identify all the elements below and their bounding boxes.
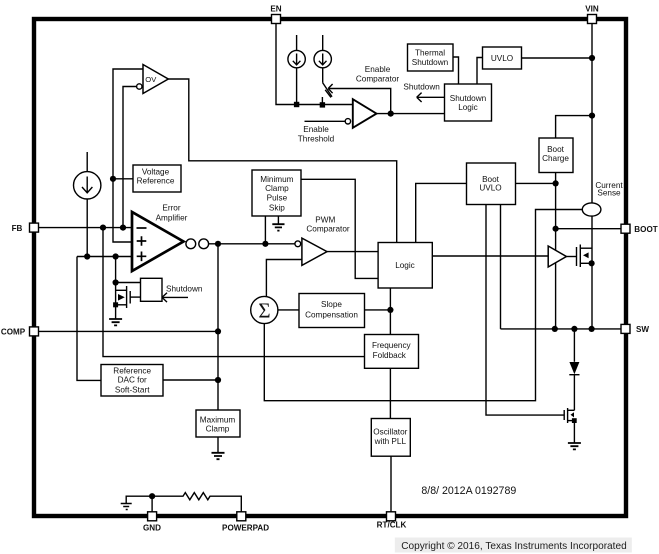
ground low side FET — [568, 443, 581, 449]
wire voltage reference left — [113, 178, 133, 180]
current source I2 (hysteresis) — [322, 35, 324, 50]
block Reference DAC for Soft-Start — [101, 365, 163, 397]
node HS source junction — [589, 260, 595, 266]
svg-text:Shutdown: Shutdown — [166, 284, 203, 293]
wire boot uvlo right — [516, 182, 556, 184]
pin BOOT — [621, 224, 630, 233]
wire FB to frequency foldback — [103, 228, 365, 357]
svg-text:Reference: Reference — [113, 367, 151, 376]
wire logic bottom rail — [389, 288, 391, 419]
wire EA noninverting input 2 — [77, 256, 132, 258]
wire boot charge top to VIN — [556, 116, 592, 138]
svg-text:Comparator: Comparator — [306, 225, 350, 234]
node slope comp / logic — [387, 307, 393, 313]
node GND net — [149, 493, 155, 499]
pin COMP — [30, 327, 39, 336]
svg-text:UVLO: UVLO — [491, 54, 513, 63]
wire summer to slope comp — [278, 309, 299, 311]
svg-text:BOOT: BOOT — [634, 225, 657, 234]
svg-text:Voltage: Voltage — [142, 168, 170, 177]
node voltage reference tap — [110, 176, 116, 182]
node diode tap — [571, 326, 577, 332]
pin FB — [30, 223, 39, 232]
op-amp U1 enable comparator — [353, 99, 377, 128]
node COMP junction — [215, 328, 221, 334]
wire thermal shutdown to shutdown logic — [453, 57, 459, 84]
svg-text:Copyright © 2016, Texas Instru: Copyright © 2016, Texas Instruments Inco… — [401, 541, 627, 552]
svg-text:Compensation: Compensation — [305, 310, 358, 319]
wire logic to gate driver — [432, 255, 548, 257]
svg-text:POWERPAD: POWERPAD — [222, 524, 269, 533]
wire boot uvlo left to logic — [416, 183, 467, 242]
wire current sense to summer — [264, 210, 582, 401]
wire UVLO to VIN rail — [522, 57, 593, 59]
wire comparator output feedback to switch with arrow — [329, 89, 391, 114]
svg-text:Thermal: Thermal — [415, 49, 445, 58]
pin VIN — [588, 15, 597, 24]
svg-text:Sense: Sense — [597, 189, 621, 198]
diode D1 — [573, 329, 575, 362]
node OV input on FB line — [120, 225, 126, 231]
block Slope Compensation — [299, 294, 365, 328]
ground GND net — [121, 504, 132, 510]
svg-text:Reference: Reference — [137, 176, 175, 185]
node EN rail junction 1 — [294, 102, 299, 107]
svg-text:Comparator: Comparator — [356, 74, 400, 83]
svg-text:Skip: Skip — [269, 204, 285, 213]
svg-text:Clamp: Clamp — [265, 184, 289, 193]
wire shutdown FET drain to box — [116, 282, 141, 284]
block Shutdown Logic — [445, 84, 492, 121]
op-amp U2 error amplifier — [132, 212, 184, 271]
wire EA input to shutdown FET — [115, 257, 117, 283]
node shutdown FET drain — [113, 279, 119, 285]
svg-text:Oscillator: Oscillator — [373, 427, 407, 436]
svg-text:FB: FB — [12, 224, 23, 233]
svg-text:with PLL: with PLL — [374, 437, 407, 446]
EA plus marker 2 — [137, 252, 147, 262]
op-amp OV comparator — [143, 65, 168, 94]
svg-text:Maximum: Maximum — [200, 415, 236, 424]
ground minimum clamp — [277, 216, 279, 224]
block Maximum Clamp — [196, 410, 240, 437]
block Minimum Clamp Pulse Skip — [252, 170, 301, 216]
block UVLO — [483, 47, 522, 69]
node HS source to SW — [589, 326, 595, 332]
current sense element CS1 — [582, 203, 601, 216]
node current source to EA input — [84, 253, 90, 259]
node driver return — [552, 326, 558, 332]
wire GND net to ground symbol — [126, 496, 152, 503]
block Frequency Foldback — [365, 335, 419, 369]
svg-text:Slope: Slope — [321, 300, 342, 309]
block Oscillator with PLL — [371, 419, 410, 457]
svg-text:Enable: Enable — [303, 125, 329, 134]
switch blade SW1 — [323, 83, 332, 97]
svg-text:Logic: Logic — [395, 261, 415, 270]
pin RT/CLK — [387, 512, 396, 521]
svg-text:SW: SW — [636, 325, 649, 334]
wire to reference DAC — [77, 257, 101, 381]
svg-text:UVLO: UVLO — [479, 183, 501, 192]
wire FB line — [39, 227, 133, 229]
svg-text:Pulse: Pulse — [267, 193, 288, 202]
wire VIN rail — [591, 24, 593, 203]
EA output gm circles — [186, 239, 196, 249]
op-amp U4 gate driver — [548, 246, 566, 267]
wire min clamp to EA output — [264, 216, 266, 244]
summer SIGMA — [251, 296, 278, 323]
node FB junction — [100, 225, 106, 231]
copyright band — [395, 538, 632, 553]
svg-text:Amplifier: Amplifier — [156, 214, 188, 223]
wire boot uvlo bottom to SW rail — [500, 205, 502, 329]
transistor Q1 shutdown FET — [115, 283, 117, 320]
svg-text:COMP: COMP — [1, 328, 26, 337]
wire EA output — [209, 243, 295, 245]
wire BOOT rail — [556, 228, 621, 230]
wire COMP pin line — [39, 330, 219, 332]
svg-text:8/8/ 2012A 0192789: 8/8/ 2012A 0192789 — [421, 485, 516, 497]
wire UVLO to shutdown logic — [477, 58, 483, 85]
node boot charge to VIN — [589, 113, 595, 119]
block Shutdown gate box — [141, 278, 163, 301]
svg-text:Σ: Σ — [258, 299, 270, 323]
wire shutdown arrow — [418, 96, 445, 98]
node enable comparator output — [388, 111, 394, 117]
node boot rail junction — [553, 226, 559, 232]
transistor Q2 high side FET — [566, 256, 576, 258]
wire OV top input — [113, 69, 143, 242]
svg-text:Clamp: Clamp — [206, 424, 230, 433]
pin POWERPAD — [237, 512, 246, 521]
wire EN pin down and across — [276, 24, 353, 105]
wire driver to SW rail — [555, 258, 557, 329]
svg-text:Shutdown: Shutdown — [403, 83, 440, 92]
svg-text:PWM: PWM — [315, 215, 335, 224]
wire VIN to high side FET drain — [591, 216, 593, 329]
svg-text:RT/CLK: RT/CLK — [377, 521, 407, 530]
node EA input to shutdown FET — [113, 253, 119, 259]
svg-text:VIN: VIN — [585, 5, 599, 14]
wire shutdown FET control arrow — [163, 296, 188, 298]
block Boot UVLO — [467, 163, 516, 205]
svg-text:Minimum: Minimum — [260, 175, 293, 184]
node min clamp tap — [262, 241, 268, 247]
wire COMP rail down — [217, 244, 219, 410]
wire slope comp to logic rail — [365, 309, 391, 311]
pin GND — [148, 512, 157, 521]
wire min clamp to logic — [301, 179, 378, 278]
op-amp U3 PWM comparator — [295, 241, 301, 247]
node boot charge / boot uvlo — [553, 180, 559, 186]
svg-text:Logic: Logic — [458, 103, 478, 112]
svg-text:Frequency: Frequency — [372, 341, 412, 350]
svg-text:Boot: Boot — [547, 145, 565, 154]
wire oscillator to RT/CLK pin — [390, 456, 392, 512]
transistor Q3 low side FET — [568, 409, 575, 411]
pin EN — [272, 15, 281, 24]
wire SW rail — [501, 328, 622, 330]
node EN rail junction 2 — [320, 102, 325, 107]
svg-text:Shutdown: Shutdown — [412, 58, 449, 67]
current source I1 (enable pullup) — [296, 35, 298, 50]
block Boot Charge — [539, 138, 573, 173]
ground maximum clamp — [217, 437, 219, 453]
wire OV inverting input from FB — [123, 87, 137, 228]
wire ref DAC to COMP rail — [163, 379, 218, 381]
wire PWM output to logic — [327, 251, 378, 253]
svg-text:DAC for: DAC for — [118, 376, 147, 385]
wire OV output to logic — [168, 79, 396, 243]
svg-text:EN: EN — [270, 5, 281, 14]
svg-text:Charge: Charge — [542, 154, 569, 163]
svg-text:Enable: Enable — [365, 65, 391, 74]
node UVLO-VIN — [589, 55, 595, 61]
block Thermal Shutdown — [408, 44, 454, 71]
svg-text:Threshold: Threshold — [298, 134, 335, 143]
wire boot charge bottom — [555, 173, 557, 251]
EA plus marker 1 — [137, 236, 147, 246]
svg-text:OV: OV — [145, 75, 157, 84]
svg-text:Foldback: Foldback — [373, 351, 407, 360]
node EA output — [215, 241, 221, 247]
wire GND pin up — [151, 496, 153, 512]
EA minus marker — [137, 227, 147, 229]
wire summer to PWM comparator — [266, 260, 302, 297]
current source I3 (soft start) — [86, 152, 88, 172]
resistor R1 powerpad bond — [152, 493, 241, 512]
pin SW — [621, 324, 630, 333]
svg-text:Error: Error — [162, 204, 180, 213]
wire boot uvlo bottom to LS gate — [486, 205, 564, 416]
svg-text:Shutdown: Shutdown — [450, 94, 487, 103]
block Voltage Reference — [133, 165, 181, 192]
svg-text:GND: GND — [143, 524, 161, 533]
block Logic — [378, 243, 432, 289]
node ref DAC junction — [215, 377, 221, 383]
ground shutdown FET — [109, 319, 122, 325]
svg-text:Soft-Start: Soft-Start — [115, 385, 150, 394]
